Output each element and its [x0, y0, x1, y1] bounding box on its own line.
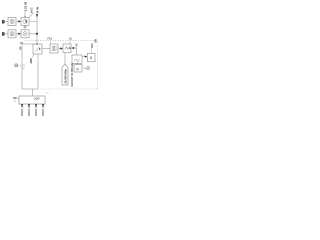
svg-text:VOUT_2: VOUT_2 — [28, 106, 31, 116]
wire N box to testpoint circle — [84, 68, 87, 69]
output stub 1 with arrowhead and label — [21, 104, 23, 108]
wire IF bus vertical x=37 — [36, 13, 38, 45]
svg-text:VC: VC — [76, 43, 79, 47]
wire A2 down to crystal — [64, 53, 66, 65]
chip dashed boundary top — [25, 40, 98, 42]
output stub 2 with arrowhead and label — [28, 104, 30, 108]
stub VCO box to N box — [77, 63, 79, 65]
wire leader to AGC label — [30, 12, 34, 17]
stub from boundary to A2 — [69, 41, 71, 44]
wire U3 out to IF bus junction — [29, 33, 37, 35]
svg-text:2: 2 — [90, 56, 92, 60]
arrowhead down on IF bus — [36, 14, 38, 17]
crystal Y1 capsule — [62, 64, 68, 85]
amp A2 box — [63, 44, 71, 53]
svg-text:LDO: LDO — [34, 97, 39, 101]
mixer U2 box row1 — [21, 17, 29, 25]
svg-text:IF IN: IF IN — [36, 7, 40, 13]
svg-text:3V: 3V — [13, 96, 17, 100]
antenna J1 input blob row1 — [2, 20, 5, 24]
port circle P1 and wire to core block — [15, 64, 18, 67]
wire FL2 to U3 with arrowhead — [16, 33, 19, 35]
wire core to regulator — [32, 89, 34, 96]
svg-text:CLKOUT 32.768 kHz: CLKOUT 32.768 kHz — [71, 62, 74, 87]
svg-text:FL3: FL3 — [48, 38, 53, 41]
wire VCO to divider with arrowhead — [82, 56, 85, 58]
wire FL1 to U2 with arrowhead — [16, 20, 19, 22]
filter FL3 box — [50, 44, 58, 53]
wire U2 out to IF bus — [29, 20, 37, 22]
VCO box — [72, 55, 82, 64]
stub LO2 T-cap above U3 — [24, 27, 26, 30]
svg-text:RF: RF — [20, 46, 23, 50]
svg-text:VCO: VCO — [22, 64, 25, 69]
wire A2 right, arrow, corner down — [71, 47, 74, 49]
svg-text:DIV: DIV — [91, 43, 94, 48]
junction dot — [36, 33, 38, 35]
divider N box — [74, 65, 82, 73]
wire A1 to FL3 — [42, 48, 50, 50]
regulator box — [19, 96, 45, 104]
wire LO1 vertical into mixer U2 — [24, 11, 26, 17]
chip dashed boundary bottom — [41, 88, 98, 90]
filter FL2 box — [8, 30, 16, 38]
svg-text:VOUT_1: VOUT_1 — [21, 106, 24, 116]
svg-text:AMP: AMP — [30, 58, 33, 64]
wire FL3 to A2 with arrowhead — [58, 48, 61, 50]
svg-text:IC: IC — [70, 37, 73, 40]
antenna J2 input blob row2 — [2, 32, 5, 36]
svg-text:LO1 IN: LO1 IN — [24, 2, 28, 11]
svg-text:AGC: AGC — [31, 7, 34, 13]
filter FL1 box — [8, 17, 16, 25]
divider box /2 — [88, 53, 96, 61]
output stub 3 with arrowhead and label — [35, 104, 37, 108]
chip dashed boundary right — [97, 41, 99, 89]
svg-text:VOUT_3: VOUT_3 — [35, 106, 38, 116]
svg-text:26.000 MHz: 26.000 MHz — [64, 68, 68, 83]
mixer U3 box row2 — [21, 30, 29, 38]
svg-text:VOUT_4: VOUT_4 — [42, 106, 45, 116]
core block rectangle — [22, 44, 38, 89]
output stub 4 with arrowhead and label — [42, 104, 44, 108]
IF amp A1 box — [33, 44, 42, 54]
leader to A1 label — [32, 54, 34, 57]
svg-text:EN: EN — [95, 39, 98, 43]
